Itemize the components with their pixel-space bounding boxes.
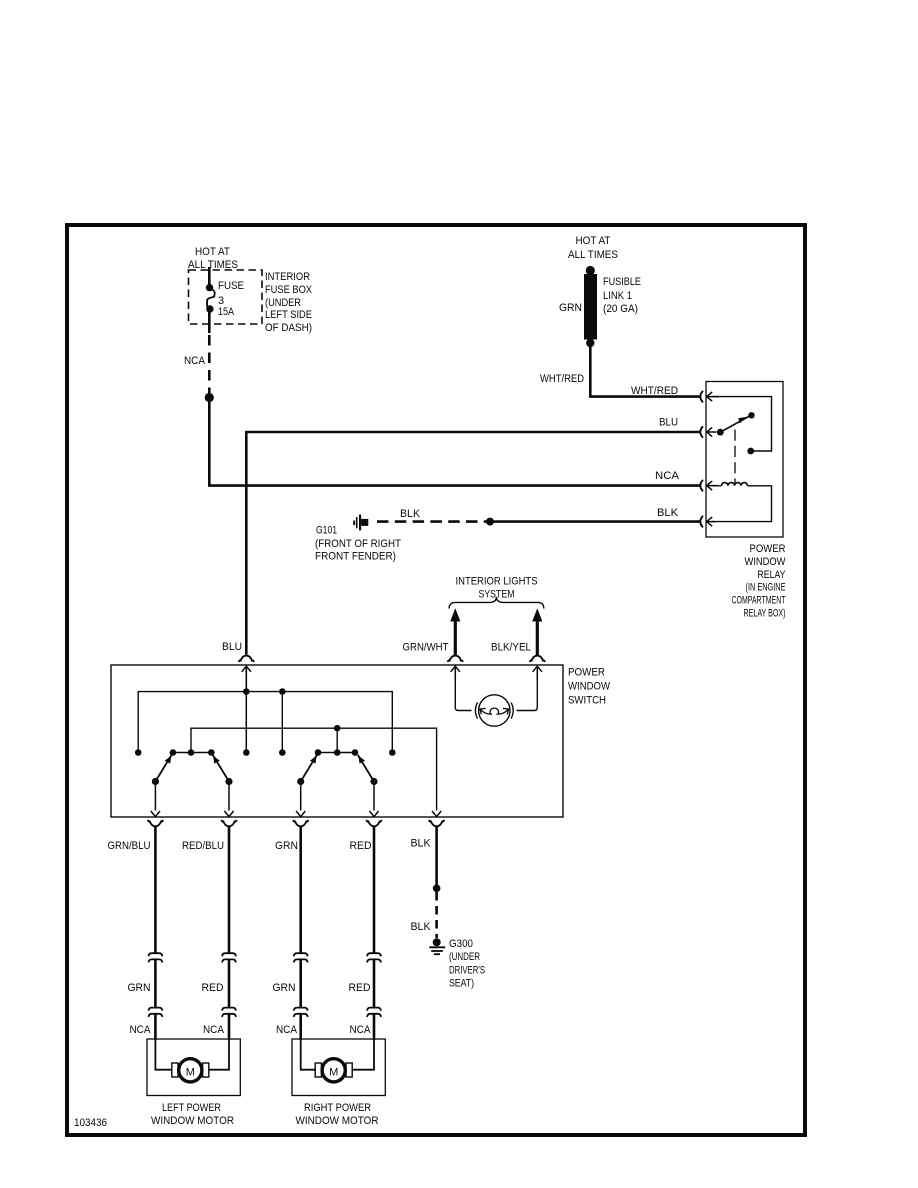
svg-text:GRN: GRN xyxy=(559,302,582,314)
relay pin connector BLK xyxy=(700,516,715,527)
svg-text:WINDOW MOTOR: WINDOW MOTOR xyxy=(296,1115,379,1127)
svg-text:NCA: NCA xyxy=(350,1024,372,1036)
ground G101 (FRONT OF RIGHT FRONT FENDER) xyxy=(315,515,401,563)
switch wiper D (to RED) xyxy=(358,755,378,785)
svg-text:(20 GA): (20 GA) xyxy=(603,303,638,315)
svg-text:RIGHT POWER: RIGHT POWER xyxy=(304,1102,371,1114)
connector cup output RED/BLU xyxy=(221,820,236,826)
contact BLU left outer xyxy=(135,749,142,756)
contact BLU right outer xyxy=(389,749,396,756)
svg-text:LINK 1: LINK 1 xyxy=(603,290,632,302)
contacts right switch xyxy=(315,749,322,756)
wire BLK dashed from G101 xyxy=(377,520,487,523)
wire bus1 tap down xyxy=(281,692,283,753)
wire GRN to right motor xyxy=(299,960,302,1008)
svg-text:GRN: GRN xyxy=(275,840,298,852)
svg-text:(UNDER: (UNDER xyxy=(449,951,480,963)
wire wiper A out (arrow) xyxy=(151,782,160,817)
label LEFT POWER WINDOW MOTOR xyxy=(151,1102,234,1127)
node HOT AT ALL TIMES (fuse feed) xyxy=(188,246,238,271)
switch bus line 2 (ground bus to BLK) xyxy=(191,728,437,810)
label G300 (UNDER DRIVER'S SEAT) xyxy=(449,938,485,990)
contact BLU center right xyxy=(279,749,286,756)
wire NCA dashed segment xyxy=(208,335,211,393)
connector cup output GRN/BLU xyxy=(148,820,163,826)
relay pin connector BLU xyxy=(700,426,716,437)
wire NCA into right motor box xyxy=(299,1014,302,1040)
label POWER WINDOW RELAY (IN ENGINE COMPARTMENT RELAY BOX) xyxy=(732,543,787,620)
node HOT AT ALL TIMES (fusible link feed) xyxy=(568,235,618,261)
fusible link 1 (20 GA) GRN xyxy=(559,266,641,347)
inline connector pair wire 3 xyxy=(294,953,308,962)
wire NCA into left motor box xyxy=(154,1014,157,1040)
label INTERIOR FUSE BOX (UNDER LEFT SIDE OF DASH) xyxy=(265,271,313,334)
inline connector pair wire 4 xyxy=(367,953,381,962)
wire BLK/YEL to interior lights (arrow up) xyxy=(530,608,545,662)
svg-text:RELAY BOX): RELAY BOX) xyxy=(744,608,786,620)
svg-text:RELAY: RELAY xyxy=(758,569,787,581)
relay actuator dashed link xyxy=(734,430,736,484)
ground G300 xyxy=(429,938,445,954)
pin arrow GRN/WHT into switch xyxy=(451,666,460,680)
label POWER WINDOW SWITCH xyxy=(568,667,611,707)
connector cup BLU at switch box xyxy=(239,656,254,662)
wire GRN/WHT to interior lights (arrow up) xyxy=(448,608,463,662)
pin arrow BLU into switch xyxy=(242,666,251,691)
wire GRN/BLU xyxy=(154,827,157,953)
wire RED to left motor xyxy=(228,960,231,1008)
inline connector pair 2 wire 1 xyxy=(149,1008,163,1017)
svg-text:RED/BLU: RED/BLU xyxy=(182,840,224,852)
svg-text:BLK: BLK xyxy=(411,838,432,850)
wire from HOT AT into fuse xyxy=(208,267,211,285)
svg-text:LEFT POWER: LEFT POWER xyxy=(162,1102,221,1114)
svg-text:M: M xyxy=(186,1066,195,1078)
lamp wiring in switch xyxy=(455,678,537,711)
svg-text:RED: RED xyxy=(350,840,372,852)
wire wiper D out (arrow) xyxy=(369,782,378,817)
relay coil xyxy=(722,483,748,486)
svg-text:POWER: POWER xyxy=(750,543,786,555)
left switch contact row xyxy=(173,752,211,754)
svg-text:15A: 15A xyxy=(218,306,235,318)
svg-text:(FRONT OF RIGHT: (FRONT OF RIGHT xyxy=(315,538,401,550)
inline connector pair 2 wire 2 xyxy=(222,1008,236,1017)
svg-text:HOT AT: HOT AT xyxy=(576,235,611,247)
svg-text:GRN: GRN xyxy=(128,982,151,994)
wire BLK dashed to G300 xyxy=(435,892,438,938)
inline connector pair 2 wire 4 xyxy=(367,1008,381,1017)
junction splice on BLK wire xyxy=(433,885,441,893)
connector cup output GRN xyxy=(293,820,308,826)
power window relay box xyxy=(706,382,783,538)
svg-text:POWER: POWER xyxy=(568,667,605,679)
svg-text:HOT AT: HOT AT xyxy=(195,246,230,258)
svg-text:GRN: GRN xyxy=(273,982,296,994)
svg-text:M: M xyxy=(329,1067,338,1079)
pin arrow BLK/YEL into switch xyxy=(533,666,542,680)
svg-text:GRN/BLU: GRN/BLU xyxy=(108,840,151,852)
wire RED (right door) xyxy=(373,827,376,953)
relay switch arm (from BLU) xyxy=(717,412,755,436)
svg-text:RED: RED xyxy=(202,982,224,994)
wire BLU inside switch xyxy=(245,666,247,752)
svg-text:BLU: BLU xyxy=(659,417,678,429)
svg-text:DRIVER'S: DRIVER'S xyxy=(449,965,485,977)
svg-text:NCA: NCA xyxy=(203,1024,225,1036)
svg-text:SWITCH: SWITCH xyxy=(568,695,606,707)
svg-text:BLK: BLK xyxy=(657,507,679,519)
left motor internal wires xyxy=(155,1039,229,1070)
relay internal wire coil to BLK pin xyxy=(712,486,772,522)
svg-text:ALL TIMES: ALL TIMES xyxy=(568,249,618,261)
inline connector pair 2 wire 3 xyxy=(294,1008,308,1017)
svg-text:FRONT FENDER): FRONT FENDER) xyxy=(315,551,396,563)
wire RED to right motor xyxy=(373,960,376,1008)
motor M (left) xyxy=(172,1059,209,1082)
brace for interior lights system xyxy=(449,597,544,609)
label RIGHT POWER WINDOW MOTOR xyxy=(296,1102,379,1127)
svg-text:WINDOW: WINDOW xyxy=(568,681,611,693)
svg-text:BLU: BLU xyxy=(222,641,242,653)
svg-text:COMPARTMENT: COMPARTMENT xyxy=(732,595,786,607)
svg-text:INTERIOR: INTERIOR xyxy=(265,271,310,283)
contact BLU center left xyxy=(243,749,250,756)
svg-text:LEFT SIDE: LEFT SIDE xyxy=(265,309,312,321)
svg-text:GRN/WHT: GRN/WHT xyxy=(403,642,449,654)
svg-text:BLK/YEL: BLK/YEL xyxy=(491,642,531,654)
switch wiper C (to GRN) xyxy=(297,755,317,785)
right switch contact row xyxy=(318,752,355,754)
wire wiper C out (arrow) xyxy=(296,782,305,817)
svg-text:NCA: NCA xyxy=(276,1024,298,1036)
arrow BLK out of switch xyxy=(432,811,441,817)
inline connector pair wire 2 xyxy=(222,953,236,962)
interior fuse box (dashed boundary) xyxy=(189,270,263,324)
right power window motor box xyxy=(292,1039,385,1096)
svg-text:WHT/RED: WHT/RED xyxy=(631,385,678,397)
svg-text:SEAT): SEAT) xyxy=(449,978,474,990)
motor M (right) xyxy=(315,1059,352,1082)
svg-text:NCA: NCA xyxy=(655,470,680,482)
switch wiper B (to RED/BLU) xyxy=(213,755,233,785)
svg-text:FUSIBLE: FUSIBLE xyxy=(603,276,641,288)
svg-text:INTERIOR LIGHTS: INTERIOR LIGHTS xyxy=(456,576,538,588)
svg-text:BLK: BLK xyxy=(400,508,421,520)
fuse FUSE 3 15A xyxy=(206,280,244,318)
svg-text:(IN ENGINE: (IN ENGINE xyxy=(746,582,786,594)
wire BLU from relay to power window switch xyxy=(246,432,699,655)
relay internal wire WHT/RED to NO contact xyxy=(712,397,772,451)
svg-text:OF DASH): OF DASH) xyxy=(265,322,312,334)
lamp (switch illumination) xyxy=(475,695,513,726)
svg-text:WINDOW: WINDOW xyxy=(745,556,787,568)
wire GRN to left motor xyxy=(154,960,157,1008)
junction splice on NCA wire xyxy=(205,393,214,402)
svg-text:G300: G300 xyxy=(449,938,473,950)
svg-text:RED: RED xyxy=(349,982,371,994)
border frame xyxy=(67,225,805,1135)
wire BLK solid to relay xyxy=(493,520,700,523)
svg-text:BLK: BLK xyxy=(411,921,432,933)
junction splice on BLK wire xyxy=(486,518,494,526)
connector cup output BLK xyxy=(429,820,444,826)
wire BLK from switch xyxy=(435,827,438,885)
relay pin connector NCA xyxy=(700,480,718,491)
svg-text:G101: G101 xyxy=(316,525,337,537)
svg-text:103436: 103436 xyxy=(74,1117,107,1129)
power window switch box xyxy=(111,665,563,817)
right motor internal wires xyxy=(301,1039,374,1070)
wire WHT/RED from fusible link to relay xyxy=(590,346,699,397)
contacts left switch xyxy=(170,749,177,756)
node INTERIOR LIGHTS SYSTEM xyxy=(456,576,538,601)
svg-text:WHT/RED: WHT/RED xyxy=(540,373,584,385)
switch wiper A (to GRN/BLU) xyxy=(152,755,172,785)
junction bus2 tap xyxy=(334,725,341,732)
wire bus2 tap down xyxy=(336,728,338,752)
svg-text:FUSE BOX: FUSE BOX xyxy=(265,284,313,296)
wire NCA to relay coil xyxy=(209,401,699,486)
wire GRN (right door) xyxy=(299,827,302,953)
relay NO contact xyxy=(747,448,754,455)
relay pin connector WHT/RED xyxy=(700,391,719,402)
svg-text:(UNDER: (UNDER xyxy=(265,297,301,309)
svg-text:WINDOW MOTOR: WINDOW MOTOR xyxy=(151,1115,234,1127)
left power window motor box xyxy=(147,1039,240,1096)
wire fuse output (solid below fuse) xyxy=(208,311,211,333)
connector cup output RED xyxy=(366,820,381,826)
switch bus line 1 (BLU feed) xyxy=(138,692,392,753)
wire wiper B out (arrow) xyxy=(224,782,233,817)
svg-text:NCA: NCA xyxy=(130,1024,152,1036)
inline connector pair wire 1 xyxy=(149,953,163,962)
junction BLU on bus 1 xyxy=(243,688,250,695)
junction bus1 tap xyxy=(279,688,286,695)
svg-text:FUSE: FUSE xyxy=(218,280,244,292)
wire RED/BLU xyxy=(228,827,231,953)
svg-text:NCA: NCA xyxy=(184,355,206,367)
